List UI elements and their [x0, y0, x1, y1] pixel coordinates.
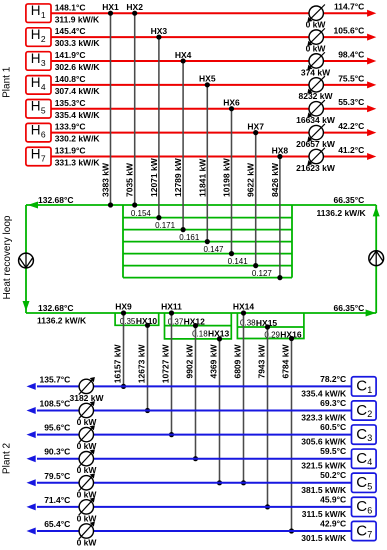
svg-text:0.38: 0.38: [240, 319, 256, 328]
svg-text:2: 2: [367, 409, 372, 419]
loop bottom pipe flow arrow: [366, 310, 376, 317]
cold stream C3 line: [37, 434, 352, 436]
exchanger HX9 node on C1: [121, 384, 126, 389]
svg-text:8232 kW: 8232 kW: [298, 91, 333, 101]
svg-text:C: C: [356, 450, 367, 467]
hot stream H7 box: [26, 146, 51, 165]
svg-text:Plant 1: Plant 1: [2, 66, 13, 98]
hot stream H5 outlet arrow: [367, 105, 376, 112]
cooler on C2: [79, 401, 95, 419]
loop top pipe flow arrow: [28, 202, 38, 209]
cooler on C6: [79, 498, 95, 516]
svg-text:3182 kW: 3182 kW: [69, 393, 104, 403]
svg-text:0.37: 0.37: [168, 317, 184, 326]
svg-text:148.1°C: 148.1°C: [55, 2, 86, 12]
cooler on C7: [79, 522, 95, 540]
loop ladder rung 4: [123, 253, 292, 255]
svg-text:H: H: [31, 99, 41, 114]
svg-text:3: 3: [367, 433, 372, 443]
svg-text:90.3°C: 90.3°C: [44, 447, 70, 457]
exchanger HX8 node on H7: [277, 154, 282, 159]
exchanger HX7 node on H6: [253, 130, 258, 135]
svg-text:66.35°C: 66.35°C: [333, 303, 364, 313]
cold stream C2 line: [37, 410, 352, 412]
svg-text:7035 kW: 7035 kW: [125, 162, 135, 197]
svg-text:131.9°C: 131.9°C: [55, 146, 86, 156]
cold stream C3 outlet arrow: [27, 431, 36, 438]
svg-text:1: 1: [41, 10, 46, 20]
exchanger HX9 vertical wire: [123, 313, 125, 386]
loop left pipe: [25, 205, 27, 313]
svg-text:0.18: 0.18: [192, 330, 208, 339]
svg-text:6809 kW: 6809 kW: [233, 344, 243, 379]
loop ladder rung 6: [123, 277, 292, 279]
svg-text:65.4°C: 65.4°C: [44, 519, 70, 529]
loop right pipe flow arrow: [373, 206, 380, 216]
loop ladder rung 5: [123, 265, 292, 267]
exchanger HX11 node on loop: [169, 310, 174, 315]
svg-text:0.127: 0.127: [252, 269, 273, 278]
exchanger HX1 vertical wire: [110, 13, 112, 205]
svg-text:135.3°C: 135.3°C: [55, 98, 86, 108]
svg-text:HX9: HX9: [115, 302, 132, 312]
svg-text:331.3 kW/K: 331.3 kW/K: [55, 158, 101, 168]
cold stream C2 outlet arrow: [27, 407, 36, 414]
exchanger HX4 node on H3: [181, 58, 186, 63]
cold stream C7 line: [37, 530, 352, 532]
svg-text:98.4°C: 98.4°C: [338, 49, 364, 59]
svg-text:311.5 kW/K: 311.5 kW/K: [302, 509, 347, 519]
svg-text:HX3: HX3: [151, 26, 168, 36]
svg-text:0.141: 0.141: [228, 257, 249, 266]
exchanger HX11 vertical wire: [171, 313, 173, 435]
svg-text:75.5°C: 75.5°C: [338, 73, 364, 83]
exchanger HX5 vertical wire: [206, 85, 208, 242]
cold stream C5 box: [352, 473, 377, 492]
exchanger HX4 vertical wire: [182, 61, 184, 230]
cold stream C4 outlet arrow: [27, 455, 36, 462]
svg-text:10727 kW: 10727 kW: [161, 344, 171, 384]
exchanger HX5 node on loop: [205, 239, 210, 244]
svg-text:4: 4: [41, 82, 46, 92]
exchanger HX16 vertical wire: [291, 339, 293, 532]
svg-text:108.5°C: 108.5°C: [39, 399, 70, 409]
hot stream H1 outlet arrow: [367, 10, 376, 17]
svg-text:5: 5: [41, 106, 46, 116]
hot stream H6 box: [26, 123, 51, 142]
exchanger HX8 node on loop: [277, 275, 282, 280]
exchanger HX15 vertical wire: [267, 327, 269, 507]
cold stream C7 outlet arrow: [27, 528, 36, 535]
exchanger HX7 node on loop: [253, 263, 258, 268]
svg-text:140.8°C: 140.8°C: [55, 74, 86, 84]
exchanger HX2 vertical wire: [134, 13, 136, 205]
svg-text:C: C: [356, 378, 367, 395]
cooler on C5: [79, 473, 95, 491]
cold stream C5 line: [37, 482, 352, 484]
exchanger HX2 node on H1: [132, 11, 137, 16]
svg-text:42.9°C: 42.9°C: [320, 518, 346, 528]
svg-text:311.9 kW/K: 311.9 kW/K: [55, 14, 100, 24]
exchanger HX10 node on loop: [145, 323, 150, 328]
svg-text:7943 kW: 7943 kW: [257, 344, 267, 379]
exchanger HX9 node on loop: [121, 310, 126, 315]
hot stream H3 outlet arrow: [367, 57, 376, 64]
loop branch box for HX10: [115, 313, 159, 325]
exchanger HX1 node on loop: [108, 202, 113, 207]
cold stream C2 box: [352, 401, 377, 420]
hot stream H1 box: [26, 3, 51, 22]
svg-text:6: 6: [367, 505, 372, 515]
loop ladder rung 2: [123, 229, 292, 231]
svg-text:2: 2: [41, 34, 46, 44]
svg-text:95.6°C: 95.6°C: [44, 423, 70, 433]
hot stream H3 box: [26, 51, 51, 70]
exchanger HX12 node on loop: [193, 323, 198, 328]
svg-text:50.2°C: 50.2°C: [320, 470, 346, 480]
svg-text:374 kW: 374 kW: [301, 67, 331, 77]
hot stream H5 box: [26, 99, 51, 118]
svg-text:79.5°C: 79.5°C: [44, 471, 70, 481]
cooler on C4: [79, 449, 95, 467]
svg-text:HX1: HX1: [102, 2, 119, 12]
svg-text:60.5°C: 60.5°C: [320, 422, 346, 432]
hot stream H2 line: [51, 36, 368, 38]
svg-text:HX11: HX11: [161, 302, 182, 312]
svg-text:0.35: 0.35: [120, 317, 136, 326]
svg-text:9902 kW: 9902 kW: [185, 344, 195, 379]
exchanger HX15 node on loop: [265, 324, 270, 329]
hot stream H1 line: [51, 12, 368, 14]
hot stream H2 box: [26, 27, 51, 46]
exchanger HX11 node on C3: [169, 432, 174, 437]
hot stream H5 line: [51, 108, 368, 110]
exchanger HX14 node on C5: [241, 480, 246, 485]
cold stream C6 line: [37, 506, 352, 508]
svg-text:H: H: [31, 3, 41, 18]
exchanger HX5 node on H4: [205, 82, 210, 87]
hot stream H2 outlet arrow: [367, 34, 376, 41]
heater on H5: [307, 100, 325, 118]
svg-text:335.4 kW/K: 335.4 kW/K: [55, 110, 101, 120]
svg-text:12789 kW: 12789 kW: [173, 157, 183, 197]
svg-text:307.4 kW/K: 307.4 kW/K: [55, 86, 101, 96]
svg-text:C: C: [356, 474, 367, 491]
svg-text:H: H: [31, 27, 41, 42]
svg-text:7: 7: [41, 153, 46, 163]
svg-text:H: H: [31, 123, 41, 138]
svg-text:71.4°C: 71.4°C: [44, 495, 70, 505]
svg-text:42.2°C: 42.2°C: [338, 121, 364, 131]
svg-text:133.9°C: 133.9°C: [55, 122, 86, 132]
exchanger HX16 node on C7: [289, 528, 294, 533]
loop pump right: [369, 251, 384, 266]
svg-text:0.161: 0.161: [179, 233, 200, 242]
loop branch box for HX12/HX13: [165, 313, 232, 339]
exchanger HX12 node on C4: [193, 456, 198, 461]
cooler on C3: [79, 425, 95, 443]
svg-text:0.171: 0.171: [155, 221, 176, 230]
svg-text:HX5: HX5: [199, 74, 216, 84]
loop pump left: [19, 253, 34, 268]
svg-text:7: 7: [367, 530, 372, 540]
exchanger HX3 node on loop: [156, 215, 161, 220]
svg-text:303.3 kW/K: 303.3 kW/K: [55, 38, 101, 48]
hot stream H3 line: [51, 60, 368, 62]
cold stream C3 box: [352, 425, 377, 444]
svg-text:321.5 kW/K: 321.5 kW/K: [301, 461, 347, 471]
cold stream C5 outlet arrow: [27, 479, 36, 486]
svg-text:114.7°C: 114.7°C: [334, 2, 364, 12]
exchanger HX2 node on loop: [132, 202, 137, 207]
svg-text:59.5°C: 59.5°C: [320, 446, 346, 456]
svg-text:0 kW: 0 kW: [306, 43, 327, 53]
svg-text:1: 1: [367, 385, 372, 395]
svg-text:55.3°C: 55.3°C: [338, 97, 364, 107]
exchanger HX16 node on loop: [289, 336, 294, 341]
svg-text:301.5 kW/K: 301.5 kW/K: [301, 533, 347, 543]
loop ladder left bus: [122, 205, 124, 278]
svg-text:78.2°C: 78.2°C: [320, 374, 346, 384]
svg-text:45.9°C: 45.9°C: [320, 494, 346, 504]
cold stream C1 line: [37, 385, 352, 387]
cold stream C6 outlet arrow: [27, 503, 36, 510]
svg-text:HX7: HX7: [247, 121, 264, 131]
exchanger HX10 node on C2: [145, 408, 150, 413]
svg-text:16157 kW: 16157 kW: [113, 344, 123, 384]
hot stream H7 outlet arrow: [367, 153, 376, 160]
heater on H3: [307, 52, 325, 70]
svg-text:0.147: 0.147: [203, 245, 224, 254]
heater on H7: [307, 148, 325, 166]
svg-text:381.5 kW/K: 381.5 kW/K: [301, 485, 347, 495]
cold stream C4 line: [37, 458, 352, 460]
svg-text:132.68°C: 132.68°C: [38, 195, 74, 205]
exchanger HX8 vertical wire: [279, 156, 281, 277]
svg-text:305.6 kW/K: 305.6 kW/K: [301, 437, 347, 447]
svg-text:HX8: HX8: [272, 145, 289, 155]
svg-text:C: C: [356, 402, 367, 419]
svg-text:302.6 kW/K: 302.6 kW/K: [55, 62, 101, 72]
exchanger HX13 node on C5: [217, 480, 222, 485]
svg-text:145.4°C: 145.4°C: [55, 26, 86, 36]
cooler on C1: [79, 377, 95, 395]
loop ladder rung 1: [123, 217, 292, 219]
exchanger HX7 vertical wire: [255, 133, 257, 266]
svg-text:3383 kW: 3383 kW: [101, 162, 111, 197]
heater on H1: [307, 5, 325, 23]
exchanger HX6 node on H5: [229, 106, 234, 111]
svg-text:H: H: [31, 51, 41, 66]
svg-text:6784 kW: 6784 kW: [281, 344, 291, 379]
svg-text:Heat recovery loop: Heat recovery loop: [2, 215, 13, 299]
svg-text:4: 4: [367, 457, 372, 467]
cold stream C6 box: [352, 497, 377, 516]
heater on H6: [307, 124, 325, 142]
svg-text:5: 5: [367, 481, 372, 491]
svg-text:335.4 kW/K: 335.4 kW/K: [301, 388, 347, 398]
hot stream H6 outlet arrow: [367, 129, 376, 136]
loop bottom pipe: [26, 312, 376, 314]
svg-text:H: H: [31, 75, 41, 90]
cold stream C1 box: [352, 377, 377, 396]
exchanger HX14 vertical wire: [243, 313, 245, 483]
exchanger HX1 node on H1: [108, 11, 113, 16]
loop ladder right bus: [291, 205, 293, 278]
exchanger HX10 vertical wire: [147, 325, 149, 410]
exchanger HX13 vertical wire: [219, 339, 221, 483]
svg-text:1136.2 kW/K: 1136.2 kW/K: [317, 208, 367, 218]
loop ladder rung 3: [123, 241, 292, 243]
loop branch box for HX15/HX16: [237, 313, 304, 339]
svg-text:10198 kW: 10198 kW: [222, 157, 232, 197]
svg-text:20657 kW: 20657 kW: [296, 139, 336, 149]
svg-text:3: 3: [41, 58, 46, 68]
exchanger HX3 node on H2: [156, 34, 161, 39]
svg-text:16634 kW: 16634 kW: [296, 115, 336, 125]
svg-text:330.2 kW/K: 330.2 kW/K: [55, 134, 101, 144]
svg-text:12071 kW: 12071 kW: [149, 157, 159, 197]
exchanger HX12 vertical wire: [195, 326, 197, 459]
svg-text:C: C: [356, 522, 367, 539]
exchanger HX6 vertical wire: [231, 109, 233, 254]
svg-text:H: H: [31, 146, 41, 161]
svg-text:69.3°C: 69.3°C: [320, 398, 346, 408]
exchanger HX15 node on C6: [265, 504, 270, 509]
svg-text:C: C: [356, 426, 367, 443]
svg-text:105.6°C: 105.6°C: [333, 26, 364, 36]
svg-text:132.68°C: 132.68°C: [38, 303, 74, 313]
svg-text:HX14: HX14: [233, 302, 255, 312]
hot stream H4 line: [51, 84, 368, 86]
svg-text:C: C: [356, 498, 367, 515]
exchanger HX13 node on loop: [217, 336, 222, 341]
exchanger HX6 node on loop: [229, 251, 234, 256]
svg-text:0.154: 0.154: [131, 209, 152, 218]
heater on H2: [307, 28, 325, 46]
svg-text:12673 kW: 12673 kW: [137, 344, 147, 384]
svg-text:21623 kW: 21623 kW: [296, 163, 336, 173]
heater on H4: [307, 76, 325, 94]
svg-text:8426 kW: 8426 kW: [270, 162, 280, 197]
svg-text:HX2: HX2: [126, 2, 143, 12]
exchanger HX3 vertical wire: [158, 37, 160, 218]
svg-text:4369 kW: 4369 kW: [209, 344, 219, 379]
hot stream H4 box: [26, 75, 51, 94]
hot stream H4 outlet arrow: [367, 81, 376, 88]
svg-text:135.7°C: 135.7°C: [39, 374, 70, 384]
hot stream H6 line: [51, 132, 368, 134]
cold stream C4 box: [352, 449, 377, 468]
svg-text:323.3 kW/K: 323.3 kW/K: [301, 413, 347, 423]
loop top pipe: [26, 204, 376, 206]
svg-text:6: 6: [41, 130, 46, 140]
svg-text:41.2°C: 41.2°C: [338, 145, 364, 155]
exchanger HX4 node on loop: [181, 227, 186, 232]
svg-text:0 kW: 0 kW: [77, 538, 98, 548]
svg-text:Plant 2: Plant 2: [2, 442, 13, 474]
loop right pipe: [375, 205, 377, 313]
svg-text:HX4: HX4: [175, 50, 192, 60]
svg-text:66.35°C: 66.35°C: [333, 195, 364, 205]
svg-text:HX6: HX6: [223, 98, 240, 108]
loop left pipe flow arrow: [23, 301, 30, 311]
svg-text:141.9°C: 141.9°C: [55, 50, 86, 60]
svg-text:11841 kW: 11841 kW: [197, 158, 207, 197]
cold stream C1 outlet arrow: [27, 383, 36, 390]
hot stream H7 line: [51, 155, 368, 157]
exchanger HX14 node on loop: [241, 310, 246, 315]
cold stream C7 box: [352, 521, 377, 540]
svg-text:0 kW: 0 kW: [306, 20, 327, 30]
svg-text:1136.2 kW/K: 1136.2 kW/K: [37, 316, 87, 326]
svg-text:9622 kW: 9622 kW: [246, 162, 256, 197]
